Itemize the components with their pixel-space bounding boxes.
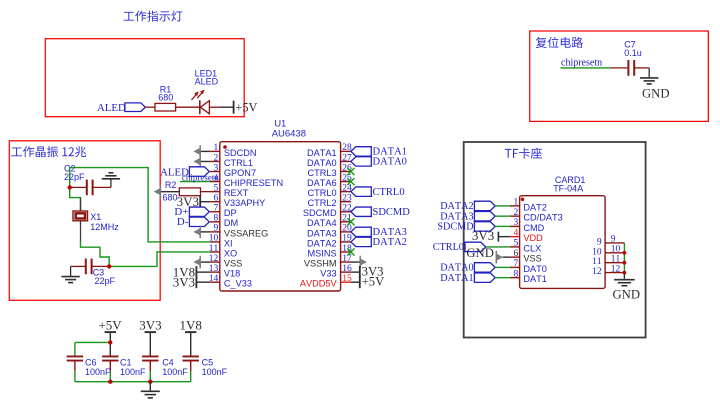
svg-text:V33APHY: V33APHY — [224, 198, 265, 208]
svg-text:MSINS: MSINS — [307, 248, 336, 258]
svg-text:DATA3: DATA3 — [307, 228, 337, 238]
svg-text:VSSHM: VSSHM — [304, 258, 337, 268]
svg-text:13: 13 — [209, 264, 219, 274]
svg-text:XI: XI — [224, 238, 233, 248]
svg-text:8: 8 — [214, 214, 219, 224]
svg-text:2: 2 — [214, 153, 219, 163]
svg-text:100nF: 100nF — [162, 367, 188, 377]
svg-text:4: 4 — [513, 228, 518, 238]
svg-text:DATA0: DATA0 — [373, 157, 407, 168]
svg-text:DATA1: DATA1 — [440, 273, 473, 284]
svg-text:chipresetn: chipresetn — [561, 58, 602, 69]
svg-text:10: 10 — [592, 247, 602, 257]
svg-text:GND: GND — [613, 287, 641, 301]
svg-text:VSS: VSS — [224, 258, 242, 268]
svg-text:12: 12 — [611, 264, 621, 274]
svg-text:22pF: 22pF — [95, 276, 116, 286]
svg-text:7: 7 — [214, 204, 219, 214]
svg-text:GPON7: GPON7 — [224, 168, 256, 178]
svg-text:+5V: +5V — [235, 100, 257, 114]
svg-text:100nF: 100nF — [85, 367, 111, 377]
svg-text:REXT: REXT — [224, 188, 249, 198]
svg-text:C5: C5 — [202, 357, 214, 367]
svg-text:CD/DAT3: CD/DAT3 — [523, 213, 562, 223]
svg-text:CMD: CMD — [523, 223, 544, 233]
svg-text:11: 11 — [209, 244, 219, 254]
svg-text:C_V33: C_V33 — [224, 279, 252, 289]
svg-text:3V3: 3V3 — [173, 274, 195, 289]
svg-text:AVDD5V: AVDD5V — [300, 279, 338, 289]
svg-text:DATA6: DATA6 — [307, 178, 337, 188]
svg-text:23: 23 — [342, 194, 352, 204]
svg-text:GND: GND — [466, 246, 494, 260]
svg-text:12MHz: 12MHz — [90, 222, 119, 232]
svg-text:DP: DP — [224, 208, 237, 218]
svg-text:VSSAREG: VSSAREG — [224, 228, 268, 238]
svg-text:SDCDN: SDCDN — [224, 148, 257, 158]
svg-text:AU6438: AU6438 — [272, 129, 306, 140]
svg-text:3V3: 3V3 — [139, 318, 161, 333]
svg-text:14: 14 — [209, 274, 219, 284]
svg-text:VSS: VSS — [523, 254, 541, 264]
svg-text:CTRL3: CTRL3 — [307, 168, 336, 178]
svg-text:C6: C6 — [85, 357, 97, 367]
svg-text:DAT0: DAT0 — [523, 264, 547, 274]
svg-text:GND: GND — [642, 87, 670, 101]
svg-text:CTRL0: CTRL0 — [307, 188, 336, 198]
svg-text:ALED: ALED — [195, 77, 219, 87]
svg-text:+5V: +5V — [98, 318, 122, 333]
svg-text:VDD: VDD — [523, 233, 543, 243]
svg-text:XO: XO — [224, 248, 237, 258]
svg-text:3: 3 — [513, 218, 518, 228]
svg-text:1: 1 — [513, 198, 518, 208]
svg-text:+5V: +5V — [362, 275, 385, 289]
svg-text:CTRL2: CTRL2 — [307, 198, 336, 208]
svg-text:CHIPRESETN: CHIPRESETN — [224, 178, 283, 188]
svg-text:2: 2 — [513, 208, 518, 218]
svg-text:R2: R2 — [165, 180, 177, 190]
svg-text:100nF: 100nF — [202, 367, 228, 377]
svg-text:5: 5 — [513, 239, 518, 249]
svg-text:9: 9 — [214, 224, 219, 234]
svg-text:16: 16 — [342, 264, 352, 274]
svg-text:C1: C1 — [120, 357, 132, 367]
svg-text:100nF: 100nF — [120, 367, 146, 377]
svg-text:SDCMD: SDCMD — [437, 222, 473, 233]
svg-text:X1: X1 — [90, 212, 101, 222]
svg-text:DATA0: DATA0 — [307, 158, 337, 168]
svg-text:5: 5 — [214, 183, 219, 193]
svg-text:11: 11 — [592, 257, 602, 267]
svg-text:6: 6 — [214, 194, 219, 204]
svg-text:CLX: CLX — [523, 243, 541, 253]
svg-text:11: 11 — [611, 255, 621, 265]
svg-text:ALED: ALED — [97, 102, 126, 114]
svg-text:CTRL0: CTRL0 — [433, 242, 464, 253]
svg-text:SDCMD: SDCMD — [373, 207, 411, 218]
svg-text:680: 680 — [158, 92, 173, 102]
svg-text:0.1u: 0.1u — [624, 48, 642, 58]
svg-text:DATA4: DATA4 — [307, 218, 337, 228]
svg-text:9: 9 — [611, 235, 616, 245]
svg-text:12: 12 — [209, 254, 219, 264]
svg-text:1V8: 1V8 — [179, 318, 201, 333]
svg-text:15: 15 — [342, 274, 352, 284]
svg-text:C4: C4 — [162, 357, 174, 367]
svg-text:3V3: 3V3 — [472, 228, 494, 243]
svg-text:V33: V33 — [320, 269, 336, 279]
svg-text:D-: D- — [177, 216, 189, 228]
svg-text:10: 10 — [611, 245, 621, 255]
svg-text:DAT1: DAT1 — [523, 274, 547, 284]
svg-text:DATA2: DATA2 — [373, 237, 407, 248]
svg-text:CTRL0: CTRL0 — [373, 187, 405, 198]
svg-text:TF-04A: TF-04A — [553, 183, 583, 193]
svg-text:9: 9 — [597, 237, 602, 247]
svg-text:7: 7 — [513, 259, 518, 269]
svg-text:DATA1: DATA1 — [307, 148, 337, 158]
svg-text:DM: DM — [224, 218, 238, 228]
svg-text:DAT2: DAT2 — [523, 202, 547, 212]
svg-text:chipresetn: chipresetn — [182, 172, 219, 182]
svg-text:12: 12 — [592, 267, 602, 277]
svg-text:DATA2: DATA2 — [307, 238, 337, 248]
svg-text:CTRL1: CTRL1 — [224, 158, 253, 168]
svg-text:680: 680 — [162, 192, 177, 202]
svg-text:8: 8 — [513, 269, 518, 279]
svg-text:1: 1 — [214, 143, 219, 153]
svg-text:V18: V18 — [224, 269, 240, 279]
svg-text:SDCMD: SDCMD — [303, 208, 337, 218]
svg-text:22pF: 22pF — [64, 172, 85, 182]
svg-text:10: 10 — [209, 234, 219, 244]
svg-text:6: 6 — [513, 249, 518, 259]
